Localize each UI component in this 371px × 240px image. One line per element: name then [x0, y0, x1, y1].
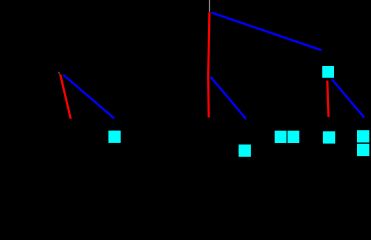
middle tree: long blue edge to right node — [211, 13, 321, 51]
middle tree: white trunk above top vertex — [209, 0, 211, 12]
right subtree: stacked cyan squares below blue — [357, 130, 369, 142]
left tree: blue edge — [63, 75, 114, 119]
middle tree: blue edge from mid vertex — [211, 77, 246, 119]
right subtree: red edge — [327, 81, 328, 118]
right subtree: blue edge — [332, 79, 364, 117]
middle tree: red edge upper — [208, 12, 209, 76]
middle tree: red edge lower — [207, 76, 210, 118]
left tree: faint white trunk above vertex — [58, 72, 61, 74]
left tree: red edge — [60, 74, 70, 119]
left tree: cyan leaf square — [108, 131, 120, 143]
right subtree: cyan leaf square below red — [323, 131, 335, 143]
middle tree: cyan leaf square below blue edge — [239, 145, 251, 157]
floating pair of cyan squares — [275, 131, 287, 143]
right subtree: cyan node square — [322, 66, 334, 78]
